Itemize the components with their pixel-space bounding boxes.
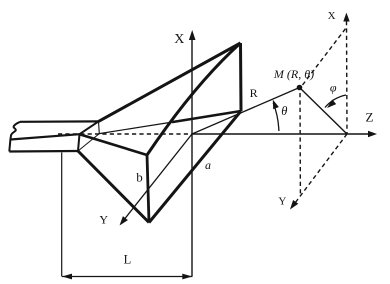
aperture edge A-B: [239, 43, 243, 111]
waveguide bottom edge: [9, 150, 78, 153]
horn bottom edge BN-C: [78, 151, 149, 223]
waveguide mouth top slant TN-TF: [80, 121, 99, 134]
X axis arrowhead: [189, 30, 196, 40]
phi arrowhead: [327, 100, 336, 109]
line M-P: [300, 88, 348, 135]
theta arc: [273, 103, 279, 131]
svg-text:Y: Y: [99, 213, 108, 227]
theta arrowhead: [273, 100, 279, 110]
svg-text:L: L: [124, 253, 132, 267]
X' axis arrowhead: [343, 13, 349, 22]
Z axis: [192, 133, 369, 135]
svg-text:X: X: [328, 10, 336, 22]
L dimension left extension line: [61, 153, 63, 277]
svg-text:b: b: [136, 170, 143, 185]
aperture edge D-C: [147, 155, 149, 223]
point M dot: [297, 85, 303, 91]
horn edge BF-B visible part: [172, 111, 241, 122]
aperture edge C-B: [149, 111, 241, 223]
R line from origin to M: [192, 88, 300, 135]
horn hidden edge BF-B: [99, 122, 172, 134]
Y axis arrowhead: [120, 216, 128, 225]
waveguide front-top edge: [11, 134, 80, 139]
svg-text:φ: φ: [330, 81, 337, 95]
aperture edge A-D: [147, 43, 241, 155]
Y axis: [121, 134, 192, 224]
svg-text:a: a: [205, 158, 211, 172]
X axis: [191, 38, 193, 277]
waveguide mouth front edge TN-BN: [78, 134, 80, 151]
svg-text:Z: Z: [366, 109, 374, 124]
vertical dashed below M: [299, 93, 301, 196]
horn top edge TF-A: [99, 43, 241, 121]
svg-text:Y: Y: [278, 196, 286, 208]
waveguide top-far edge: [20, 120, 99, 123]
Z axis hidden dashed segment: [58, 133, 192, 135]
Y' axis arrowhead: [290, 200, 298, 210]
horn edge TN-D: [80, 134, 148, 155]
X' axis dashed: [346, 21, 349, 134]
phi arc: [325, 95, 346, 108]
svg-text:R: R: [250, 86, 258, 100]
Z axis arrowhead: [368, 131, 377, 137]
waveguide torn left edge: [9, 122, 20, 152]
L dimension line: [62, 276, 192, 278]
waveguide hidden edge BN-BF: [78, 134, 99, 151]
Y' axis dashed: [292, 134, 347, 207]
L dimension right arrowhead: [182, 274, 192, 280]
svg-text:X: X: [174, 32, 184, 47]
dashed line M to X' axis: [303, 28, 347, 85]
waveguide hidden edge TF-BF: [98, 121, 101, 133]
svg-text:θ: θ: [281, 104, 287, 118]
L dimension left arrowhead: [62, 274, 72, 280]
